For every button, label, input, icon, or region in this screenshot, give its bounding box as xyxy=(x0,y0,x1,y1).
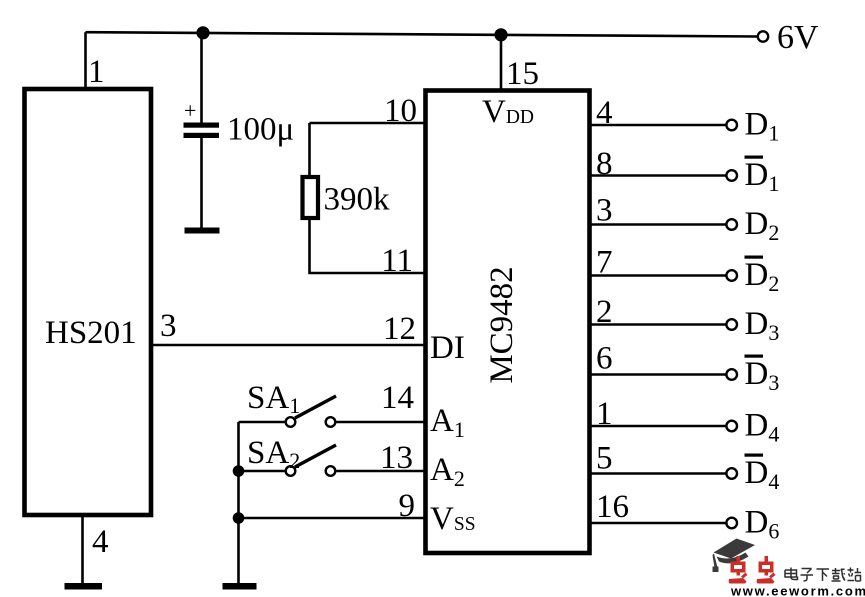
svg-text:A2: A2 xyxy=(430,452,465,491)
watermark: eeworm graduation-cap logo xyxy=(713,539,756,573)
wire: IC pin 1 to output D4 xyxy=(590,425,727,428)
capacitor C1 (electrolytic) plates xyxy=(184,123,220,139)
svg-text:14: 14 xyxy=(381,380,414,416)
svg-text:D3: D3 xyxy=(745,356,780,395)
svg-text:100μ: 100μ xyxy=(227,112,294,148)
wire: rail to C1 positive plate xyxy=(200,33,203,123)
wire: IC pin 7 to output D2bar xyxy=(590,274,727,277)
svg-text:SA1: SA1 xyxy=(247,380,300,418)
watermark: site name characters xyxy=(785,568,861,582)
wire: IC pin 15 to supply rail xyxy=(500,35,503,91)
switch SA1 xyxy=(286,396,336,427)
svg-text:8: 8 xyxy=(596,146,613,182)
switch SA2 xyxy=(286,445,336,476)
svg-text:7: 7 xyxy=(596,245,613,281)
label: D4bar xyxy=(745,454,780,495)
terminal: output D6 xyxy=(726,518,737,529)
wire: IC pin 4 to output D1 xyxy=(590,124,727,127)
wire: IC pin 6 to output D3bar xyxy=(590,373,727,376)
junction: bus / VSS wire xyxy=(233,512,245,524)
svg-text:DI: DI xyxy=(430,330,465,366)
terminal: output D3 xyxy=(726,319,737,330)
wire: SA1 to IC pin 14 xyxy=(336,421,425,424)
svg-text:D2: D2 xyxy=(745,257,780,296)
svg-text:1: 1 xyxy=(596,396,613,432)
terminal: output D2 xyxy=(726,219,737,230)
svg-text:VSS: VSS xyxy=(430,501,476,537)
ground: C1 xyxy=(185,228,220,234)
svg-text:www.eeworm.com: www.eeworm.com xyxy=(730,584,865,597)
wire: HS201 pin 3 to IC pin 12 (DI) xyxy=(150,344,424,347)
label: D1bar xyxy=(745,156,780,197)
svg-text:D4: D4 xyxy=(745,455,780,494)
wire: IC pin 16 to output D6 xyxy=(590,522,727,525)
wire: HS201 pin 1 to supply rail xyxy=(84,32,87,89)
svg-text:6: 6 xyxy=(596,341,613,377)
svg-text:D3: D3 xyxy=(745,306,780,345)
wire: IC pin 2 to output D3 xyxy=(590,323,727,326)
terminal: output D1bar xyxy=(726,170,737,181)
wire: R1 bottom to IC pin 11 xyxy=(310,218,425,273)
resistor R1 xyxy=(303,177,319,218)
wire: IC pin 5 to output D4bar xyxy=(590,472,727,475)
terminal: output D2bar xyxy=(726,270,737,281)
svg-text:13: 13 xyxy=(380,440,413,476)
label: D3bar xyxy=(745,355,780,396)
svg-text:9: 9 xyxy=(399,488,416,524)
svg-text:10: 10 xyxy=(384,93,417,129)
wire: C1 negative plate to ground xyxy=(200,138,203,228)
wire: IC pin 8 to output D1bar xyxy=(590,174,727,177)
wire: ground bus to switch SA1 xyxy=(239,421,286,424)
svg-text:3: 3 xyxy=(596,193,613,229)
terminal: output D1 xyxy=(726,120,737,131)
terminal: output D4 xyxy=(726,421,737,432)
terminal: 6V supply input xyxy=(758,31,768,41)
terminal: output D3bar xyxy=(726,369,737,380)
svg-text:D6: D6 xyxy=(745,505,780,544)
svg-text:D4: D4 xyxy=(745,408,780,447)
svg-text:VDD: VDD xyxy=(482,94,534,130)
svg-text:A1: A1 xyxy=(430,403,465,442)
ground: HS201 pin 4 xyxy=(65,583,103,590)
svg-text:HS201: HS201 xyxy=(45,315,137,351)
terminal: output D4bar xyxy=(726,468,737,479)
wire: pin-10 net down to R1 top xyxy=(308,123,311,177)
svg-text:5: 5 xyxy=(596,441,613,477)
svg-text:D1: D1 xyxy=(745,157,780,196)
svg-text:390k: 390k xyxy=(324,182,391,218)
svg-text:MC9482: MC9482 xyxy=(484,266,520,383)
svg-text:11: 11 xyxy=(381,243,413,279)
wire: +6V supply rail (top) xyxy=(86,32,758,36)
svg-text:3: 3 xyxy=(160,308,177,344)
ground: switch bus xyxy=(223,583,257,590)
svg-text:+: + xyxy=(184,98,196,123)
svg-text:D2: D2 xyxy=(745,206,780,245)
wire: HS201 pin 4 to ground xyxy=(81,515,84,584)
svg-text:4: 4 xyxy=(92,524,109,560)
wire: IC pin 3 to output D2 xyxy=(590,223,727,226)
IC U1: HS201 box xyxy=(25,89,152,515)
junction: rail / IC pin 15 xyxy=(494,28,507,41)
junction: bus / SA2 xyxy=(233,465,245,477)
svg-text:15: 15 xyxy=(506,56,539,92)
svg-text:4: 4 xyxy=(596,95,613,131)
svg-text:2: 2 xyxy=(596,294,613,330)
wire: IC pin 10 xyxy=(310,122,425,125)
wire: IC pin 9 (VSS) to ground bus xyxy=(239,517,425,520)
svg-text:SA2: SA2 xyxy=(247,435,300,473)
wire: ground bus to switch SA2 xyxy=(239,470,286,473)
svg-text:1: 1 xyxy=(88,54,105,90)
svg-text:12: 12 xyxy=(383,311,416,347)
junction: rail / capacitor C1 xyxy=(196,26,209,39)
watermark: red chongchong characters xyxy=(729,556,776,584)
svg-text:16: 16 xyxy=(596,489,629,525)
label: D2bar xyxy=(745,256,780,297)
wire: SA2 to IC pin 13 xyxy=(336,470,425,473)
wire: ground bus (vertical) xyxy=(237,422,240,584)
svg-text:6V: 6V xyxy=(777,19,819,56)
IC U2: MC9482 box xyxy=(426,91,590,554)
svg-text:D1: D1 xyxy=(745,107,780,146)
